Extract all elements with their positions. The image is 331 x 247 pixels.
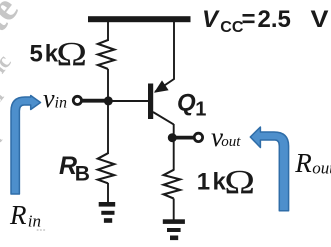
resistor RB <box>98 153 114 183</box>
svg-text:vin: vin <box>43 84 67 113</box>
resistor 1 kOhm <box>164 170 180 199</box>
resistor 5 kOhm <box>98 40 114 69</box>
value label 5 kOhm <box>30 35 88 73</box>
svg-text:te: te <box>0 0 27 40</box>
svg-text:ic: ic <box>0 49 16 77</box>
ground (RB) <box>99 202 116 223</box>
ground (1k) <box>163 219 185 240</box>
VCC power rail <box>88 16 191 22</box>
wire vin stub <box>82 99 108 103</box>
wire emitter to vout node <box>173 124 175 138</box>
wire resistor to vin node <box>107 69 109 101</box>
svg-text:5k: 5k <box>30 41 59 68</box>
svg-text:Ω: Ω <box>56 35 87 73</box>
wire vout node to 1k resistor <box>173 138 175 171</box>
terminal vin <box>73 96 81 104</box>
svg-text:Q1: Q1 <box>177 90 206 121</box>
wire vout stub <box>173 136 195 140</box>
wire vin node to RB <box>107 101 109 154</box>
wire 1k to ground <box>173 199 175 221</box>
wire RB to ground <box>107 183 109 203</box>
svg-text:vout: vout <box>211 122 241 152</box>
value label 1 kOhm <box>197 163 255 201</box>
svg-text:RB: RB <box>59 152 90 186</box>
wire rail to Q1 collector <box>155 22 174 92</box>
svg-text:xi: xi <box>0 84 8 113</box>
node vin junction <box>104 96 113 105</box>
terminal vout <box>194 133 202 141</box>
wire base from vin node to Q1 <box>108 100 149 102</box>
input impedance arrow Rin <box>11 96 41 195</box>
svg-text:a: a <box>0 129 7 150</box>
svg-text:1k: 1k <box>197 169 227 196</box>
wire rail to 5k resistor <box>107 22 109 41</box>
transistor Q1 <box>148 80 174 124</box>
svg-text:Rout: Rout <box>294 148 331 178</box>
node vout junction <box>168 133 177 142</box>
svg-text:VCC=2.5V: VCC=2.5V <box>202 6 329 36</box>
output impedance arrow Rout <box>250 127 288 211</box>
svg-text:Rin: Rin <box>9 200 41 230</box>
svg-text:Ω: Ω <box>224 163 255 201</box>
